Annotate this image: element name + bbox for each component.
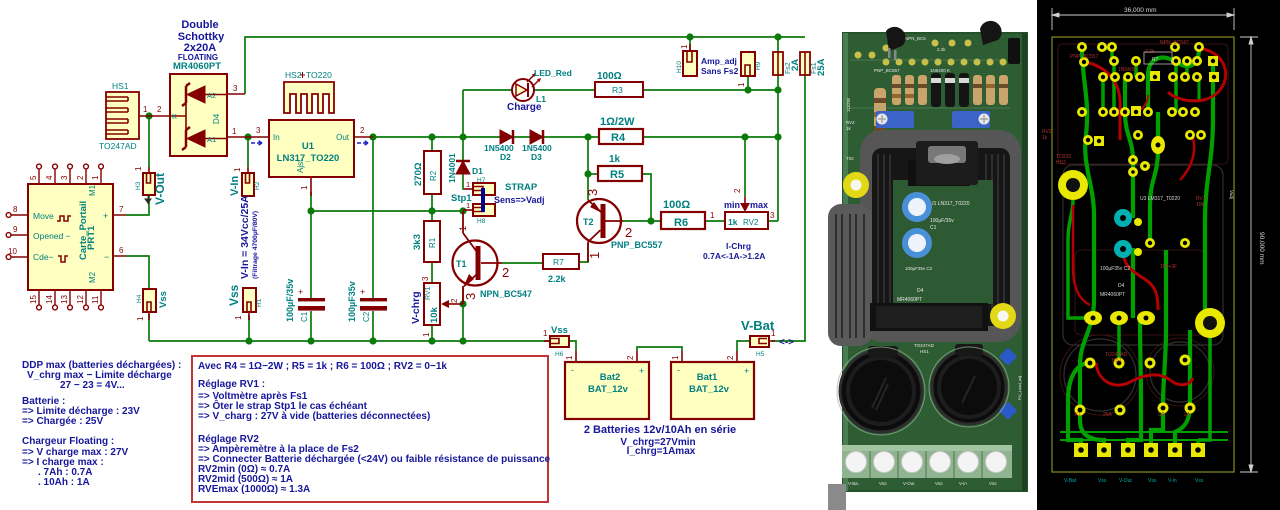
potentiometer RV2 1k xyxy=(725,197,768,229)
node RV1 Vss xyxy=(428,337,435,344)
svg-text:100+3F: 100+3F xyxy=(1160,264,1177,270)
wire U1 out rail xyxy=(373,136,500,138)
pin U1 Ajst pin1 xyxy=(310,177,312,196)
wire T2 collector to R7 xyxy=(579,243,588,262)
wire D1 bottom to H7 xyxy=(463,174,464,189)
svg-text:1Ω/2W: 1Ω/2W xyxy=(600,116,635,128)
svg-text:2: 2 xyxy=(450,298,459,303)
svg-text:NPN_BC547: NPN_BC547 xyxy=(1160,40,1189,46)
svg-text:M2: M2 xyxy=(88,271,97,283)
svg-text:1N5400 K: 1N5400 K xyxy=(930,68,950,73)
svg-text:R1: R1 xyxy=(428,237,437,248)
svg-text:HS1: HS1 xyxy=(112,81,129,91)
svg-text:V-in: V-in xyxy=(1168,478,1177,484)
svg-text:Ajst: Ajst xyxy=(296,159,305,173)
svg-text:3: 3 xyxy=(256,126,261,135)
resistor R3 100 ohm xyxy=(595,82,643,97)
pcb3d trimmer RV1 xyxy=(952,111,990,128)
svg-text:11: 11 xyxy=(91,295,100,304)
svg-text:RVEmax (1000Ω) ≈ 1.3A: RVEmax (1000Ω) ≈ 1.3A xyxy=(198,484,310,495)
node RV2 wiper / R4 out xyxy=(741,133,748,140)
svg-text:D4: D4 xyxy=(212,113,221,124)
svg-text:I-Chrg: I-Chrg xyxy=(726,241,751,251)
pcb3d caps top tabs xyxy=(868,346,898,358)
svg-text:4: 4 xyxy=(45,175,54,180)
svg-text:1N5400: 1N5400 xyxy=(1118,67,1136,73)
svg-text:MR4060PT: MR4060PT xyxy=(1100,292,1125,298)
svg-text:U3 LM317_T0220: U3 LM317_T0220 xyxy=(1140,196,1180,202)
wire PRT1 pin6 to H4 xyxy=(126,256,149,289)
svg-text:12: 12 xyxy=(76,295,85,304)
svg-text:R7: R7 xyxy=(1152,57,1159,63)
svg-text:1: 1 xyxy=(587,252,602,259)
svg-text:Vss: Vss xyxy=(879,481,887,486)
svg-text:H4: H4 xyxy=(136,294,143,303)
wire LED left xyxy=(463,89,512,91)
pin D4 A2 pin3 xyxy=(227,93,245,95)
node C1 Vss xyxy=(307,337,314,344)
svg-text:1k: 1k xyxy=(609,154,621,165)
svg-text:max: max xyxy=(750,200,768,210)
resistor R6 100 ohm xyxy=(661,212,705,229)
pcb3d trimmer RV2 xyxy=(876,111,914,128)
svg-text:+: + xyxy=(298,287,303,297)
svg-text:Opened −: Opened − xyxy=(33,231,71,241)
svg-text:+: + xyxy=(744,366,749,376)
svg-text:3: 3 xyxy=(463,293,478,300)
node Stp1/T1 collector xyxy=(459,207,466,214)
wire Fs1 column down to V-Bat xyxy=(772,75,805,341)
svg-text:1: 1 xyxy=(565,355,574,360)
connector H7 strap top xyxy=(464,183,495,195)
svg-text:1: 1 xyxy=(458,226,468,231)
svg-text:-: - xyxy=(677,365,680,375)
pin D4 A1 pin1 / U1 In pin3 xyxy=(227,136,269,138)
svg-text:MR4060PT: MR4060PT xyxy=(897,297,922,303)
svg-text:H9: H9 xyxy=(755,61,762,70)
strap Stp1 blue link xyxy=(481,188,485,212)
svg-text:2: 2 xyxy=(360,126,365,135)
node U1 adj rail left xyxy=(307,207,314,214)
node T1 emitter Vss xyxy=(459,337,466,344)
svg-text:3: 3 xyxy=(770,211,775,220)
svg-text:270Ω: 270Ω xyxy=(413,162,424,186)
svg-text:100µF35v: 100µF35v xyxy=(347,281,357,322)
svg-text:Vss: Vss xyxy=(158,291,169,308)
svg-text:1: 1 xyxy=(91,175,100,180)
svg-text:100µF35v C2: 100µF35v C2 xyxy=(1100,266,1130,272)
svg-text:10k: 10k xyxy=(1196,202,1205,208)
svg-text:D3: D3 xyxy=(531,152,542,162)
pcb3d resistor row xyxy=(892,73,1008,107)
pcb3d heatsink window showing board xyxy=(893,180,993,304)
svg-text:A2: A2 xyxy=(207,91,216,100)
wire T2 base to R6 xyxy=(623,220,661,222)
svg-text:2A: 2A xyxy=(790,59,801,71)
pcb3d silk text U1 xyxy=(930,201,970,231)
wire D4 cathode common xyxy=(170,94,186,139)
svg-text:1: 1 xyxy=(134,166,143,171)
pcb3d silk outlines around caps xyxy=(837,347,925,435)
glyph pulse after Cde xyxy=(58,256,68,262)
svg-text:Vss: Vss xyxy=(1098,478,1107,484)
svg-text:R6: R6 xyxy=(674,217,688,229)
svg-text:1: 1 xyxy=(671,355,680,360)
svg-text:C2: C2 xyxy=(362,311,371,322)
pin U1 Out pin2 xyxy=(354,136,373,138)
svg-text:D4: D4 xyxy=(917,288,924,294)
svg-text:S2: S2 xyxy=(1158,412,1164,418)
svg-text:10k: 10k xyxy=(429,306,440,323)
svg-text:1: 1 xyxy=(737,82,746,87)
connector H1 Vss xyxy=(243,288,256,320)
diode D2 1N5400 xyxy=(500,130,513,144)
svg-text:1k: 1k xyxy=(728,217,738,227)
svg-text:H3: H3 xyxy=(135,181,142,190)
svg-text:1: 1 xyxy=(136,316,145,321)
svg-text:7: 7 xyxy=(119,205,124,214)
pcb layout capacitor pads cyan xyxy=(1114,209,1132,227)
svg-text:RV2: RV2 xyxy=(846,120,855,125)
wire Vss rail xyxy=(149,340,550,342)
svg-text:2: 2 xyxy=(733,188,742,193)
svg-text:R2: R2 xyxy=(429,170,438,181)
wire C2 column xyxy=(372,137,374,341)
svg-text:Vadj: Vadj xyxy=(1229,190,1234,199)
svg-text:V-Out: V-Out xyxy=(1119,478,1132,484)
svg-text:10: 10 xyxy=(8,247,17,256)
wire T1 base to R7 xyxy=(502,262,543,264)
svg-text:1: 1 xyxy=(771,329,776,338)
transistor T2 PNP_BC557 xyxy=(577,199,623,262)
node H10 on top rail xyxy=(686,33,693,40)
svg-text:K1: K1 xyxy=(1075,412,1081,418)
svg-text:1: 1 xyxy=(710,211,715,220)
svg-text:90,000 mm: 90,000 mm xyxy=(1258,232,1265,265)
svg-text:2: 2 xyxy=(626,355,635,360)
pcb3d mount hole left xyxy=(843,172,869,198)
svg-text:+: + xyxy=(103,211,108,221)
svg-text:RV2: RV2 xyxy=(743,218,759,227)
pins PRT1 left 8,9,10 xyxy=(6,213,28,260)
svg-text:2.2k: 2.2k xyxy=(548,274,567,284)
svg-text:min: min xyxy=(724,200,740,210)
svg-text:V-chrg: V-chrg xyxy=(410,291,422,324)
resistor R7 2.2k xyxy=(543,254,579,269)
pcb layout mount hole top-left xyxy=(1058,170,1088,200)
svg-text:Amp_adj: Amp_adj xyxy=(701,56,737,66)
svg-text:LED_Red: LED_Red xyxy=(534,68,572,78)
svg-text:1: 1 xyxy=(232,127,237,136)
node T2 emitter / R5 xyxy=(584,170,591,177)
svg-text:1: 1 xyxy=(680,44,689,49)
svg-text:3k3: 3k3 xyxy=(412,234,423,250)
wire H1 pin down to Vss rail xyxy=(248,315,250,341)
svg-text:V-In = 34Vcc/25A: V-In = 34Vcc/25A xyxy=(239,195,251,279)
svg-text:H5: H5 xyxy=(756,351,765,358)
svg-text:HS2: HS2 xyxy=(1056,160,1066,166)
heatsink HS1 TO247AD xyxy=(106,92,139,139)
connector H10 Amp_adj xyxy=(683,44,697,76)
pcb layout dimension right xyxy=(1240,37,1258,472)
component PRT1 Carte_Portail body xyxy=(28,184,113,290)
svg-text:In: In xyxy=(273,133,280,142)
svg-text:2.2k: 2.2k xyxy=(937,47,946,52)
pcb3d heatsink gray shell xyxy=(828,130,1021,346)
pcb3d transistor Q top-right xyxy=(980,21,1002,45)
svg-text:V-Ba.: V-Ba. xyxy=(848,481,859,486)
wire D1 top xyxy=(462,137,464,160)
svg-text:BAT_12v: BAT_12v xyxy=(689,384,730,395)
battery Bat1 BAT_12v xyxy=(671,351,754,419)
svg-text:PNP_BC557: PNP_BC557 xyxy=(1070,54,1099,60)
node H9 / R3 out xyxy=(744,86,751,93)
svg-text:R7: R7 xyxy=(553,257,564,267)
connector H6 Vss battery xyxy=(544,336,569,347)
wire LED to R3 xyxy=(534,89,595,91)
svg-text:H6: H6 xyxy=(555,351,564,358)
resistor R4 1ohm 2W xyxy=(599,129,643,144)
svg-text:2 Batteries 12v/10Ah en série: 2 Batteries 12v/10Ah en série xyxy=(584,424,736,436)
glyph square wave after Move xyxy=(57,216,71,221)
connector H3 V-Out xyxy=(143,167,155,203)
node C2 Vss xyxy=(369,337,376,344)
node Fs2 top rail xyxy=(774,33,781,40)
diode D4 upper schottky A2 xyxy=(182,83,227,106)
svg-text:A1: A1 xyxy=(207,135,216,144)
svg-text:5: 5 xyxy=(29,175,38,180)
svg-text:=> V_charg : 27V à vide (batte: => V_charg : 27V à vide (batteries décon… xyxy=(198,411,430,422)
connector H9 xyxy=(741,52,755,76)
svg-text:Vss: Vss xyxy=(989,481,997,486)
pcb3d transistor Q top-left xyxy=(886,27,906,60)
wire Bat2 pin2 to Bat1 pin1 xyxy=(637,347,682,351)
pcb layout pad holes xyxy=(1078,45,1217,453)
svg-text:15: 15 xyxy=(29,295,38,304)
svg-text:PNP_BC557: PNP_BC557 xyxy=(874,68,900,73)
wire R6 to RV2 xyxy=(705,220,725,222)
svg-text:2: 2 xyxy=(502,265,509,280)
svg-text:13: 13 xyxy=(60,295,69,304)
capacitor C1 100uF/35v xyxy=(298,298,325,311)
node Fs2 bottom / R3 out xyxy=(774,86,781,93)
wire R5 right to base node xyxy=(642,174,651,221)
pcb layout red traces xyxy=(1073,48,1226,385)
wire Bat1 pin2 to H5 xyxy=(737,341,750,351)
svg-text:Bat2: Bat2 xyxy=(600,372,621,383)
svg-text:2: 2 xyxy=(157,105,162,114)
battery Bat2 BAT_12v xyxy=(565,351,649,419)
svg-text:R3: R3 xyxy=(612,85,623,95)
svg-text:Réglage RV1 :: Réglage RV1 : xyxy=(198,379,265,390)
pcb3d TO220 regulator xyxy=(908,141,978,186)
wire top power rail xyxy=(245,37,805,94)
potentiometer RV1 10k xyxy=(424,283,463,325)
svg-text:3: 3 xyxy=(421,276,430,281)
svg-text:Cde−: Cde− xyxy=(33,252,54,262)
svg-text:I_chrg=1Amax: I_chrg=1Amax xyxy=(627,446,696,457)
pcb3d bottom silk labels xyxy=(848,481,997,486)
pcb3d board xyxy=(843,33,1027,491)
svg-text:Chargeur Floating :: Chargeur Floating : xyxy=(22,436,114,447)
pcb layout board outline xyxy=(1052,37,1234,472)
op-amp U1 LN317_TO220 regulator body xyxy=(269,120,354,177)
svg-text:14: 14 xyxy=(45,295,54,304)
svg-text:Avec R4 = 1Ω−2W ; R5 = 1k ; R6: Avec R4 = 1Ω−2W ; R5 = 1k ; R6 = 100Ω ; … xyxy=(198,361,447,372)
svg-text:=> Chargée : 25V: => Chargée : 25V xyxy=(22,416,103,427)
svg-text:T2: T2 xyxy=(583,217,594,227)
svg-text:PU_Load_adj: PU_Load_adj xyxy=(1017,376,1022,400)
svg-text:100Ω: 100Ω xyxy=(597,71,622,82)
wire H6 to Bat2 pin1 xyxy=(569,341,576,351)
wire R4 output xyxy=(643,136,778,138)
node LED / D1 / D2 branch xyxy=(459,133,466,140)
svg-text:HS1: HS1 xyxy=(1112,358,1122,364)
svg-text:K: K xyxy=(172,112,177,121)
svg-text:TO247AD: TO247AD xyxy=(99,141,137,151)
svg-text:H2: H2 xyxy=(254,181,261,190)
svg-text:8: 8 xyxy=(13,205,18,214)
connector H4 Vss xyxy=(143,289,156,320)
node D4 A1 / U1 In / V-In junction xyxy=(244,133,251,140)
pcb layout courtyard dark shapes xyxy=(1058,44,1228,415)
svg-text:Move: Move xyxy=(33,211,54,221)
svg-text:1: 1 xyxy=(543,329,548,338)
svg-text:+: + xyxy=(639,366,644,376)
svg-text:H10: H10 xyxy=(676,61,683,73)
svg-text:Vss: Vss xyxy=(935,481,943,486)
svg-text:U1: U1 xyxy=(302,141,315,152)
diode D4 lower schottky A1 xyxy=(182,127,227,150)
notes frame red box xyxy=(192,356,548,502)
svg-text:Vss: Vss xyxy=(551,325,568,336)
svg-text:T02: T02 xyxy=(846,156,854,161)
pcb3d capacitor C2 blue xyxy=(902,228,932,258)
svg-text:3: 3 xyxy=(233,84,238,93)
svg-text:U1 LN317_T0220: U1 LN317_T0220 xyxy=(930,201,970,207)
svg-text:1: 1 xyxy=(234,315,243,320)
svg-text:H8: H8 xyxy=(477,218,486,225)
resistor R5 1k xyxy=(598,166,642,181)
diode D1 1N4001 xyxy=(456,161,470,174)
wire U1 adj down xyxy=(310,192,312,211)
svg-text:3: 3 xyxy=(60,175,69,180)
svg-text:TO247AD: TO247AD xyxy=(914,343,935,348)
node R2/R1 junction xyxy=(428,207,435,214)
svg-text:TO220: TO220 xyxy=(306,70,332,80)
svg-text:25A: 25A xyxy=(816,58,827,76)
wire HS1 junction down to V-Out header xyxy=(148,116,150,167)
svg-text:V-in: V-in xyxy=(959,481,967,486)
pcb3d silk texts top xyxy=(846,36,950,112)
svg-text:Vss: Vss xyxy=(1195,478,1204,484)
svg-text:Charge: Charge xyxy=(507,102,542,113)
note DDP max block xyxy=(22,360,181,488)
svg-text:3: 3 xyxy=(585,189,600,196)
svg-text:2: 2 xyxy=(625,225,632,240)
svg-text:25A: 25A xyxy=(1103,412,1113,418)
svg-text:Stp1: Stp1 xyxy=(451,193,472,204)
transistor T1 NPN_BC547 xyxy=(453,211,503,304)
node HS1/D4/V-Out junction xyxy=(145,112,152,119)
svg-text:HS2: HS2 xyxy=(285,70,302,80)
svg-text:(Filtrage 4700µF/80V): (Filtrage 4700µF/80V) xyxy=(252,211,259,279)
svg-text:V-Out: V-Out xyxy=(903,481,915,486)
svg-text:HS1: HS1 xyxy=(920,349,929,354)
fuse Fs2 2A xyxy=(773,52,783,75)
LED L1 Charge xyxy=(512,73,541,101)
svg-text:Sens=>Vadj: Sens=>Vadj xyxy=(494,195,545,205)
svg-text:36,000 mm: 36,000 mm xyxy=(1124,7,1157,14)
wire T2 emitter column from D3 node xyxy=(587,137,589,200)
svg-text:V-Out: V-Out xyxy=(153,173,167,205)
svg-text:H1: H1 xyxy=(256,298,263,307)
svg-text:C1: C1 xyxy=(300,311,309,322)
diode D3 1N5400 xyxy=(530,130,543,144)
pcb layout green traces xyxy=(1060,48,1228,450)
svg-text:T1: T1 xyxy=(456,259,467,269)
wire adj rail xyxy=(311,210,463,212)
svg-text:−: − xyxy=(104,252,109,262)
wire H10 pin1 to top rail xyxy=(689,37,691,51)
svg-text:PNP_BC557: PNP_BC557 xyxy=(611,240,663,250)
wire T1 emitter down xyxy=(462,288,464,341)
svg-text:2: 2 xyxy=(76,175,85,180)
svg-text:6: 6 xyxy=(119,246,124,255)
svg-text:1: 1 xyxy=(466,180,470,189)
svg-text:100µF35v C2: 100µF35v C2 xyxy=(905,266,933,271)
pcb3d terminal block xyxy=(842,445,1012,478)
svg-text:Out: Out xyxy=(336,133,350,142)
svg-text:2: 2 xyxy=(726,355,735,360)
wire R1 bottom to RV1 xyxy=(431,262,433,283)
svg-text:V-Bat: V-Bat xyxy=(1064,478,1077,484)
svg-text:R5: R5 xyxy=(610,169,624,181)
pins PRT1 top 5,4,3,2,1 xyxy=(37,164,104,184)
node T2 base / R5 / R6 xyxy=(647,217,654,224)
pcb layout background xyxy=(1037,0,1280,510)
svg-text:0.7A<-1A->1.2A: 0.7A<-1A->1.2A xyxy=(703,251,765,261)
svg-text:PRT1: PRT1 xyxy=(86,225,97,250)
svg-text:LN317_TO220: LN317_TO220 xyxy=(277,153,340,164)
wire D3 to R4 xyxy=(543,136,599,138)
svg-text:1N4001: 1N4001 xyxy=(447,153,457,183)
pcb3d gray corner bottom-left xyxy=(828,484,846,510)
connector H5 V-Bat xyxy=(750,336,775,347)
capacitor C2 100uF/35v xyxy=(360,298,387,311)
wire Fs2 top to rail xyxy=(777,37,779,52)
connector H8 strap bottom xyxy=(463,204,495,216)
resistor R1 3k3 xyxy=(424,221,440,262)
svg-text:BAT_12v: BAT_12v xyxy=(588,384,629,395)
wire RV2 pin3 up xyxy=(768,220,778,222)
wire R5 left stub xyxy=(588,173,598,175)
pcb layout silk texts xyxy=(1042,40,1206,418)
svg-text:M1: M1 xyxy=(88,184,97,196)
pins PRT1 right 7,6 xyxy=(113,215,126,256)
pcb layout pads row1 xyxy=(1074,42,1219,457)
arrow blue Out xyxy=(357,141,368,146)
svg-text:1Ω/2W: 1Ω/2W xyxy=(846,97,851,112)
svg-text:1k: 1k xyxy=(846,126,852,131)
svg-text:Vss: Vss xyxy=(1148,478,1157,484)
pcb layout dimension top xyxy=(1052,8,1234,30)
wire R2 bottom to adj rail xyxy=(431,194,433,221)
node H1 Vss rail xyxy=(245,337,252,344)
diode module D4 MR4060PT body xyxy=(170,74,227,156)
svg-text:100Ω: 100Ω xyxy=(663,199,690,211)
pcb3d D4 module xyxy=(870,288,988,331)
